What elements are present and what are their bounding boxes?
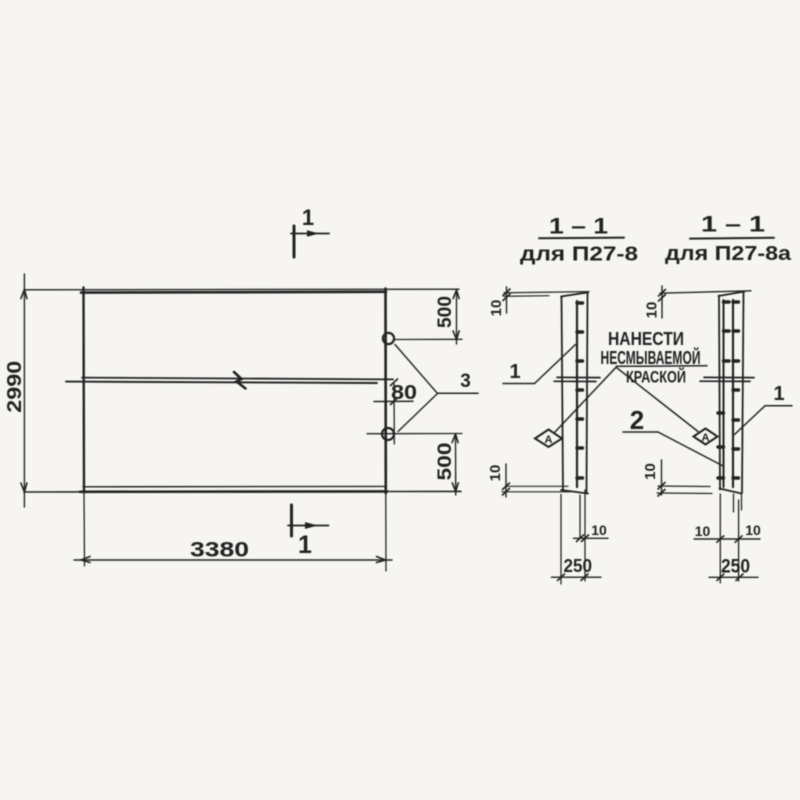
svg-text:10: 10 xyxy=(642,463,659,480)
svg-text:НАНЕСТИ: НАНЕСТИ xyxy=(608,329,684,349)
svg-text:10: 10 xyxy=(591,522,607,538)
svg-text:КРАСКОЙ: КРАСКОЙ xyxy=(626,368,686,387)
svg-text:10: 10 xyxy=(695,523,711,539)
svg-text:10: 10 xyxy=(488,300,505,317)
svg-text:1: 1 xyxy=(298,531,312,559)
svg-text:3380: 3380 xyxy=(190,539,249,562)
svg-text:для П27-8а: для П27-8а xyxy=(665,243,792,265)
svg-text:10: 10 xyxy=(745,522,761,538)
svg-text:НЕСМЫВАЕМОЙ: НЕСМЫВАЕМОЙ xyxy=(601,347,701,368)
svg-text:10: 10 xyxy=(644,302,661,319)
svg-text:1 – 1: 1 – 1 xyxy=(701,212,765,237)
svg-text:10: 10 xyxy=(487,465,504,482)
svg-text:А: А xyxy=(702,432,710,444)
svg-text:250: 250 xyxy=(721,557,750,578)
svg-text:250: 250 xyxy=(564,556,593,576)
svg-text:2: 2 xyxy=(630,405,644,435)
svg-text:500: 500 xyxy=(435,443,456,481)
svg-text:3: 3 xyxy=(460,371,471,392)
svg-text:1: 1 xyxy=(773,383,784,405)
svg-text:80: 80 xyxy=(391,382,417,404)
svg-text:для П27-8: для П27-8 xyxy=(520,244,638,266)
svg-text:1 – 1: 1 – 1 xyxy=(549,214,608,239)
svg-text:1: 1 xyxy=(302,205,314,230)
svg-text:А: А xyxy=(545,434,553,446)
svg-text:1: 1 xyxy=(509,361,520,383)
svg-text:2990: 2990 xyxy=(4,361,26,413)
svg-text:500: 500 xyxy=(435,296,456,328)
